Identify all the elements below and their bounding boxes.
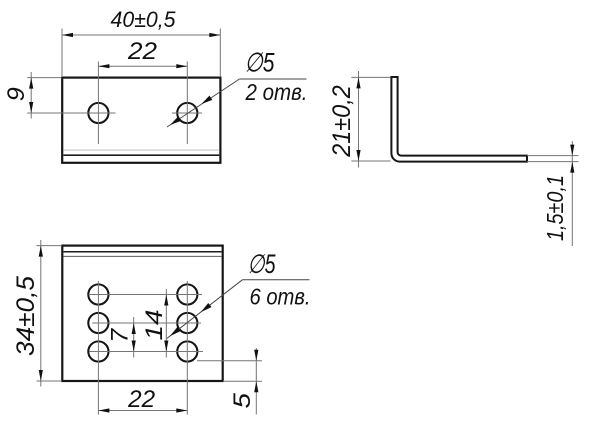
centerline horizontal hole H1 / extension for dim 9 [27, 112, 115, 114]
svg-text:21±0,2: 21±0,2 [328, 85, 356, 158]
row1 centerline / extension for dim 14 [89, 294, 203, 296]
hole H1 (left) [88, 103, 108, 123]
svg-text:1,5±0,1: 1,5±0,1 [542, 175, 568, 241]
extension line upper for dim 1,5 [527, 155, 579, 157]
dimension line 1,5±0,1 [571, 141, 573, 246]
extension line lower for dim 5 (bottom edge extended) [223, 380, 262, 382]
leader line for hole callout (bottom view) [167, 280, 243, 339]
row3 centerline / extension for dims 7 and 14 [89, 351, 203, 353]
dimension line 22 (top view) [98, 65, 187, 67]
dimension line 5 [255, 348, 257, 415]
extension line bottom for dim 21 [351, 160, 390, 162]
dimension line 14 [165, 289, 167, 358]
svg-text:∅5: ∅5 [248, 249, 276, 279]
bend tangent line light [63, 149, 219, 151]
leader shelf (bottom view) [243, 279, 310, 281]
extension line right for dim 40 [219, 29, 221, 78]
dimension line 21±0,2 [358, 71, 360, 168]
dimension line 9 [30, 72, 32, 119]
svg-text:7: 7 [107, 327, 134, 343]
centerline vertical hole H2 / extension for dim 22 [186, 62, 188, 145]
centerline horizontal hole H2 [172, 112, 202, 114]
leader arrow at line end [169, 116, 181, 127]
dimension line 40±0,5 [62, 34, 220, 36]
hole B6 row3 right [177, 341, 197, 361]
leader arrow at line end (bottom view) [168, 327, 180, 338]
extension line left for dim 40 [61, 29, 63, 78]
svg-text:∅5: ∅5 [245, 48, 276, 78]
dimension line 22 (bottom view) [98, 410, 187, 412]
svg-text:34±0,5: 34±0,5 [12, 276, 40, 356]
hole H2 (right) [177, 103, 197, 123]
L profile outline [391, 77, 527, 162]
hole B3 row2 left [88, 313, 108, 333]
dimension line 34±0,5 [40, 240, 42, 387]
svg-text:22: 22 [127, 386, 155, 413]
plate outline top view [62, 78, 220, 163]
leader arrow at hole edge [200, 96, 212, 107]
hole B4 row2 right [177, 313, 197, 333]
extension line top for dim 34 [37, 245, 62, 247]
svg-text:14: 14 [141, 310, 168, 341]
centerline vertical hole H1 / extension for dim 22 [97, 62, 99, 145]
extension line top for dim 9 [27, 77, 61, 79]
hole B5 row3 left [88, 341, 108, 361]
hole B2 row1 right [177, 284, 197, 304]
svg-text:6 отв.: 6 отв. [250, 283, 311, 309]
dimension line 7 [133, 317, 135, 358]
svg-text:22: 22 [127, 38, 157, 65]
column centerline left / extension for dim 22 bottom [97, 281, 99, 415]
bend tangent line dark [63, 154, 219, 156]
plate outline bottom view [62, 246, 222, 381]
svg-text:5: 5 [229, 392, 256, 408]
column centerline right / extension for dim 22 bottom [186, 281, 188, 415]
svg-text:40±0,5: 40±0,5 [111, 7, 176, 32]
svg-text:9: 9 [3, 87, 30, 101]
row2 centerline / extension for dim 7 [92, 322, 201, 324]
leader arrow at hole edge (bottom view) [199, 303, 211, 314]
leader shelf (top view) [240, 78, 307, 80]
leader line for hole callout (top view) [167, 79, 240, 127]
bend tangent line light (bottom view) [64, 255, 222, 257]
extension line top for dim 21 [351, 76, 390, 78]
extension line lower for dim 1,5 [527, 161, 579, 163]
bend tangent line dark (bottom view) [64, 251, 222, 253]
svg-text:2 отв.: 2 отв. [245, 79, 308, 105]
extension line upper for dim 5 [197, 360, 262, 362]
extension line bottom for dim 34 [37, 380, 62, 382]
hole B1 row1 left [88, 284, 108, 304]
